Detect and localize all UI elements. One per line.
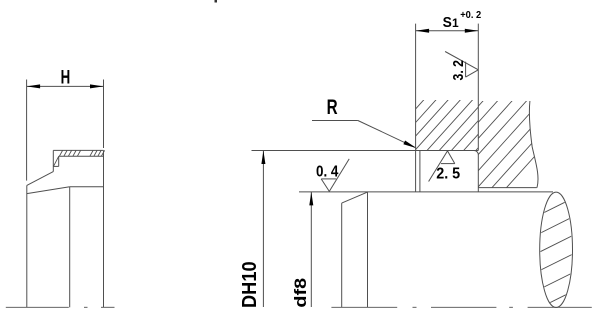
seal lip tip / outer face vertical (left view) xyxy=(26,185,28,307)
housing bore line xyxy=(478,187,537,189)
centerline under left view xyxy=(6,306,115,308)
seal left face (installed) xyxy=(419,151,421,192)
groove bottom line (DH10 surface) xyxy=(252,150,479,152)
S1 dimension line with arrows xyxy=(416,29,479,33)
seal serrated band bottom line (left view) xyxy=(59,155,104,157)
svg-text:1: 1 xyxy=(452,16,459,30)
seal middle silhouette vertical (left view) xyxy=(69,187,71,307)
seal profile top edge (left view) xyxy=(53,149,103,151)
svg-text:2. 5: 2. 5 xyxy=(436,166,460,183)
seal right face vertical (left view) xyxy=(103,150,105,307)
stray ink speck at top xyxy=(215,0,218,3)
seal notch vertical xyxy=(58,156,60,166)
surface finish symbol 3.2 on groove side wall xyxy=(445,52,478,78)
housing hatching right of groove xyxy=(311,56,600,196)
shaft surface line (df8) xyxy=(299,191,553,193)
seal bottom front slant (left view) xyxy=(27,187,70,194)
seal lip upper slant (left view) xyxy=(27,172,54,186)
seal notch horizontal xyxy=(53,165,58,167)
shaft end ellipse (broken section) xyxy=(540,192,573,307)
svg-text:DH10: DH10 xyxy=(239,261,261,308)
serration hatch ticks group 2 xyxy=(90,150,105,156)
serration hatch ticks group 1 xyxy=(59,150,80,156)
seal bottom edge horizontal (left view) xyxy=(70,186,104,188)
svg-text:S: S xyxy=(443,14,452,31)
H dimension line with arrows xyxy=(27,84,104,88)
svg-text:+0. 2: +0. 2 xyxy=(460,9,481,21)
groove left wall / S1 left extension line xyxy=(415,24,417,192)
H dimension extension line right xyxy=(103,80,105,149)
S1 dimension label xyxy=(443,14,459,31)
S1 right extension line xyxy=(477,24,479,151)
df8 dimension line with arrow xyxy=(309,192,313,307)
seal right face with rounded top corner (installed) xyxy=(474,151,478,192)
housing hatching above groove xyxy=(347,89,544,159)
svg-text:0. 4: 0. 4 xyxy=(316,163,338,180)
surface finish symbol 0.4 on shaft xyxy=(321,159,349,192)
seal step left edge (left view) xyxy=(52,150,54,171)
R leader line with arrow xyxy=(312,121,417,149)
shaft centerline (right view) xyxy=(331,306,591,308)
seal notch diagonal xyxy=(54,156,59,166)
H dimension extension line left xyxy=(26,80,28,181)
svg-text:H: H xyxy=(61,68,71,89)
svg-text:df8: df8 xyxy=(291,278,310,308)
DH10 dimension line with arrow xyxy=(261,151,265,308)
svg-text:3. 2: 3. 2 xyxy=(450,60,467,81)
shaft end ellipse hatching xyxy=(536,197,576,329)
housing broken-out wavy edge xyxy=(529,101,538,188)
surface finish symbol 2.5 on groove bottom xyxy=(429,151,455,182)
svg-text:R: R xyxy=(327,96,338,119)
seal ring silhouette on shaft (installed view) xyxy=(342,192,368,307)
